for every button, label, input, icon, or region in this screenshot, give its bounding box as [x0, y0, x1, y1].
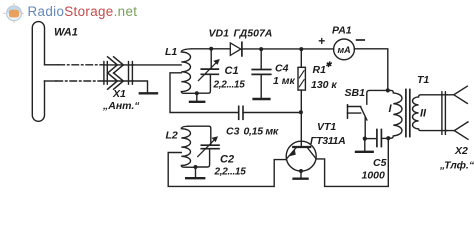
- svg-text:X1: X1: [112, 88, 126, 100]
- capacitor C3: [239, 106, 301, 119]
- wire L1 bottom to C1 bottom: [197, 75, 211, 93]
- svg-text:RadioStorage.net: RadioStorage.net: [28, 4, 138, 19]
- svg-text:VD1: VD1: [209, 28, 230, 40]
- capacitor C4: [252, 49, 270, 98]
- switch SB1: [348, 90, 388, 138]
- wire diode to PA1: [243, 48, 334, 50]
- svg-text:+: +: [318, 34, 325, 48]
- node C3/R1 junction: [299, 110, 303, 114]
- svg-text:0,15 мк: 0,15 мк: [244, 126, 279, 138]
- svg-text:II: II: [420, 108, 427, 120]
- node C1/rail: [209, 47, 213, 51]
- wire L1 tap to L2 via C3 branch: [170, 73, 238, 113]
- node T1 bottom junction: [386, 136, 390, 140]
- svg-text:L1: L1: [165, 46, 177, 58]
- svg-text:SB1: SB1: [345, 87, 366, 99]
- wire X1 top to L1 tap: [132, 64, 181, 66]
- svg-text:R1: R1: [313, 64, 327, 76]
- minus sign: [357, 39, 365, 41]
- svg-text:C4: C4: [275, 63, 289, 75]
- svg-text:I: I: [389, 103, 393, 115]
- node C4/rail: [259, 47, 263, 51]
- svg-text:130 к: 130 к: [311, 79, 337, 91]
- wire VT1 right to bottom rail: [316, 138, 388, 186]
- svg-text:T1: T1: [417, 74, 429, 86]
- wire L2 tap to ground rail: [168, 153, 274, 187]
- transformer T1 core: [406, 90, 410, 137]
- svg-text:2,2...15: 2,2...15: [213, 80, 246, 91]
- ground (X1): [140, 92, 157, 94]
- capacitor C5: [365, 130, 389, 147]
- svg-text:C3: C3: [226, 126, 240, 138]
- ground (C4): [254, 98, 270, 100]
- capacitor C2 (trimmer): [198, 136, 219, 156]
- capacitor C1 (trimmer): [198, 48, 219, 80]
- svg-text:✱: ✱: [325, 60, 332, 69]
- wire top rail PA1 to T1: [354, 49, 388, 91]
- meter PA1: [334, 39, 355, 60]
- ground (SB1/C5): [364, 139, 366, 151]
- svg-text:„Тлф.“: „Тлф.“: [439, 160, 474, 172]
- wire top rail L1 to diode: [192, 48, 230, 50]
- svg-text:„Ант.“: „Ант.“: [102, 100, 140, 112]
- node L1 bottom junction: [195, 91, 199, 95]
- wire L2 top to C2 top: [188, 126, 211, 144]
- svg-text:ГТ311А: ГТ311А: [310, 135, 345, 147]
- resistor R1: [298, 49, 305, 146]
- svg-text:мА: мА: [338, 45, 351, 55]
- svg-text:1 мк: 1 мк: [273, 75, 296, 87]
- svg-text:1000: 1000: [362, 170, 386, 182]
- ground (VT1): [300, 171, 302, 178]
- transformer T1 winding I: [388, 90, 402, 138]
- svg-text:ГД507А: ГД507А: [234, 28, 273, 40]
- node SB1/C5/ground junction: [363, 137, 367, 141]
- wire feeder bottom dash-dot from antenna to X1: [45, 80, 57, 82]
- svg-text:PA1: PA1: [332, 25, 352, 37]
- connector X2: [442, 86, 468, 139]
- svg-text:L2: L2: [166, 130, 178, 142]
- node VT1 emitter bottom: [299, 169, 303, 173]
- svg-text:WA1: WA1: [54, 27, 78, 39]
- svg-text:X2: X2: [454, 145, 468, 157]
- antenna WA1: [32, 22, 44, 122]
- diode VD1: [230, 42, 242, 56]
- svg-text:C2: C2: [220, 154, 234, 166]
- node L2 bottom junction: [194, 165, 198, 169]
- svg-text:2,2...15: 2,2...15: [214, 167, 247, 178]
- inductor L2: [181, 126, 195, 167]
- wire feeder top dash-dot from antenna to X1: [45, 64, 59, 66]
- logo icon RadioStorage: [4, 3, 25, 24]
- node T1 top junction: [386, 88, 390, 92]
- ground (L2): [195, 167, 197, 177]
- wire L2 bottom to C2 bottom: [196, 150, 210, 167]
- wire X1 bottom to ground: [132, 81, 147, 92]
- svg-text:VT1: VT1: [317, 121, 336, 133]
- svg-text:C1: C1: [225, 65, 239, 77]
- inductor L1: [181, 49, 197, 94]
- ground (L1): [190, 93, 204, 102]
- node R1/rail: [299, 47, 303, 51]
- transformer T1 winding II: [412, 95, 447, 131]
- transistor VT1: [286, 141, 316, 171]
- connector X1: [104, 57, 133, 89]
- svg-text:C5: C5: [373, 157, 387, 169]
- wire VT1 left to ground rail: [274, 160, 286, 187]
